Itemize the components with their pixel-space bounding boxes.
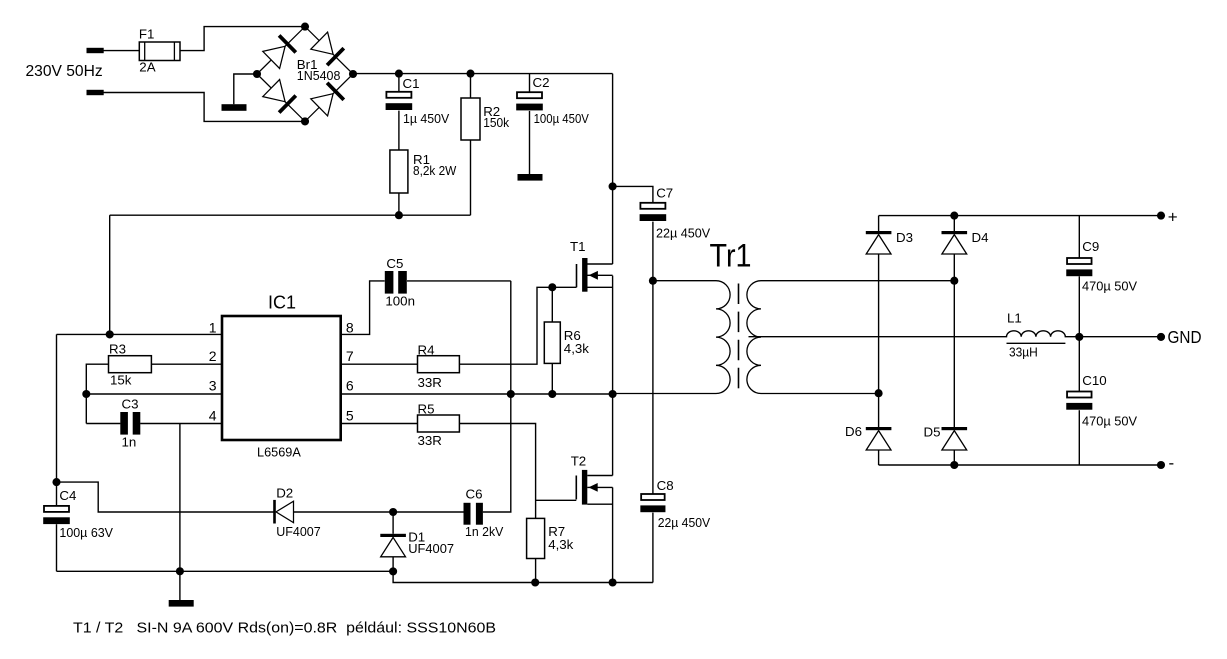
capacitor C4 — [44, 506, 69, 512]
node ground rail tap — [176, 567, 184, 575]
capacitor C3 — [120, 412, 128, 435]
svg-text:C1: C1 — [403, 76, 420, 91]
capacitor C6 — [464, 503, 471, 525]
ground at bridge — [222, 104, 247, 111]
wire bottom left rail — [57, 570, 394, 572]
node T2 source bottom — [609, 578, 617, 586]
wire C4 node jog to D2 row — [57, 482, 274, 512]
resistor R4 — [418, 356, 460, 373]
svg-text:+: + — [1168, 207, 1178, 226]
wire Vcc vertical — [109, 215, 111, 334]
node D1 top — [389, 508, 397, 516]
resistor R2 — [461, 98, 480, 140]
wire D5 branch lower — [953, 450, 955, 465]
terminal plus — [1157, 212, 1165, 220]
wire left rail down to C4 — [56, 334, 58, 482]
svg-text:UF4007: UF4007 — [408, 541, 454, 556]
svg-text:1n: 1n — [122, 435, 137, 450]
wire pin5 lead — [341, 423, 418, 425]
wire HV node to C7 — [613, 186, 653, 202]
svg-text:33R: 33R — [418, 433, 442, 448]
wire C8 bottom lead — [652, 513, 654, 583]
capacitor C9 — [1067, 258, 1092, 264]
svg-text:470µ 50V: 470µ 50V — [1082, 414, 1137, 429]
svg-text:-: - — [1169, 454, 1175, 473]
svg-text:1N5408: 1N5408 — [297, 68, 341, 83]
wire Vcc feed rail — [110, 214, 471, 216]
wire R3 left — [86, 364, 108, 423]
wire C10 top lead — [1078, 337, 1080, 391]
wire T2 gate lead — [536, 499, 577, 501]
svg-text:C9: C9 — [1082, 239, 1099, 254]
svg-text:C3: C3 — [122, 397, 139, 412]
svg-text:T1: T1 — [570, 239, 586, 254]
wire T1 source down to mid node — [612, 276, 614, 394]
svg-text:D6: D6 — [845, 424, 862, 439]
wire D3-D6 branch middle — [878, 254, 880, 427]
wire C7-C8 vertical — [652, 281, 654, 494]
svg-text:C6: C6 — [466, 487, 483, 502]
resistor R3 — [109, 356, 152, 373]
node T1 gate R6 tap — [548, 283, 556, 291]
svg-text:4,3k: 4,3k — [548, 537, 573, 552]
svg-text:F1: F1 — [139, 27, 155, 42]
wire C1 top lead — [398, 74, 400, 92]
svg-text:100µ 63V: 100µ 63V — [59, 525, 113, 540]
AC terminal bottom — [87, 90, 104, 95]
transistor T1 — [576, 264, 578, 287]
svg-text:1: 1 — [209, 320, 217, 336]
svg-text:IC1: IC1 — [268, 292, 296, 312]
wire pin6 row — [341, 393, 613, 395]
op-amp IC1 body — [222, 316, 341, 440]
capacitor C5 — [385, 271, 394, 294]
wire T2 source down — [612, 487, 614, 582]
wire C6 right lead — [483, 281, 511, 512]
bridge Br1 diamond wires — [257, 27, 353, 122]
wire pin7 lead — [341, 363, 418, 365]
wire terminal-top to fuse — [104, 50, 140, 52]
wire R6 bottom lead — [551, 363, 553, 394]
bridge diode top-right — [311, 32, 333, 54]
diode D5 — [942, 427, 968, 430]
node secondary bottom to D3 branch — [875, 389, 883, 397]
wire C9 bottom lead — [1078, 276, 1080, 337]
wire output top rail — [879, 215, 1161, 217]
resistor R6 — [544, 322, 560, 363]
capacitor C7 — [640, 203, 665, 209]
node pin1 Vcc tap — [106, 330, 114, 338]
wire bridge left to ground — [234, 74, 257, 104]
diode D1 — [380, 534, 406, 537]
node D4 top — [950, 212, 958, 220]
svg-text:4: 4 — [209, 407, 217, 423]
resistor R1 — [390, 150, 408, 193]
node C4 top — [52, 478, 60, 486]
svg-text:C8: C8 — [657, 478, 674, 493]
node C1 tap — [395, 70, 403, 78]
svg-text:2A: 2A — [139, 60, 155, 75]
resistor R5 — [418, 415, 460, 432]
svg-text:C4: C4 — [59, 488, 76, 503]
wire D4 branch upper — [953, 216, 955, 231]
wire top HV rail — [353, 73, 613, 75]
svg-text:7: 7 — [346, 348, 354, 364]
wire C2 top lead — [529, 74, 531, 93]
wire C4 top lead — [56, 482, 58, 506]
wire pin8 to C5 — [341, 281, 385, 335]
capacitor C8 — [641, 494, 665, 500]
wire C2 bottom lead — [529, 111, 531, 174]
svg-text:100n: 100n — [385, 293, 415, 308]
svg-text:D3: D3 — [896, 230, 913, 245]
wire C3 to pin4 — [140, 423, 222, 425]
wire output bottom rail — [879, 464, 1161, 466]
wire R4 to T1 gate — [459, 287, 576, 364]
svg-text:T1 / T2 SI-N 9A 600V Rds(on): T1 / T2 SI-N 9A 600V Rds(on)=0.8R példáu… — [73, 620, 496, 637]
svg-text:Tr1: Tr1 — [710, 238, 752, 274]
node half-bridge mid — [609, 390, 617, 398]
wire pin1 row — [57, 333, 223, 335]
node bridge top — [301, 23, 309, 31]
transformer Tr1 secondary winding — [747, 281, 954, 394]
wire D6 branch lower — [878, 450, 880, 465]
svg-text:L6569A: L6569A — [257, 444, 301, 459]
terminal GND — [1157, 333, 1165, 341]
wire R1 bottom lead — [398, 193, 400, 215]
fuse F1 — [139, 42, 180, 61]
transistor T2 — [575, 476, 577, 500]
node D5 bottom — [950, 461, 958, 469]
svg-text:22µ 450V: 22µ 450V — [658, 515, 711, 530]
wire C4 bottom lead — [56, 524, 58, 571]
svg-text:4,3k: 4,3k — [564, 341, 589, 356]
diode D4 — [942, 231, 968, 234]
svg-text:UF4007: UF4007 — [276, 524, 321, 539]
wire C9 top lead — [1078, 216, 1080, 258]
wire C5 right lead — [407, 280, 511, 282]
resistor R7 — [527, 518, 545, 558]
svg-text:D4: D4 — [972, 230, 989, 245]
svg-text:150k: 150k — [483, 115, 509, 130]
svg-text:2: 2 — [209, 348, 217, 364]
svg-text:100µ 450V: 100µ 450V — [534, 111, 589, 126]
wire D1 bottom lead — [392, 557, 394, 572]
capacitor C2 — [517, 92, 542, 98]
bridge diode bottom-right — [311, 94, 333, 116]
diode D3 — [866, 231, 892, 234]
svg-text:33µH: 33µH — [1009, 344, 1038, 359]
svg-text:R4: R4 — [418, 343, 435, 358]
svg-text:230V 50Hz: 230V 50Hz — [26, 63, 103, 80]
node bridge bottom — [301, 117, 309, 125]
node bridge right — [349, 70, 357, 78]
inductor L1 underline — [1007, 342, 1066, 344]
svg-text:3: 3 — [209, 378, 217, 394]
svg-text:R3: R3 — [109, 342, 126, 357]
wire fuse to bridge top node — [180, 27, 305, 51]
wire pin2 lead — [151, 363, 222, 365]
wire D4-D5 branch middle — [953, 254, 955, 427]
node GND junction — [1075, 333, 1083, 341]
wire C7 bottom to primary node — [652, 222, 654, 281]
svg-text:1n 2kV: 1n 2kV — [465, 524, 503, 539]
wire HV rail corner down to half-bridge — [612, 74, 614, 264]
wire pin4 ground vertical — [179, 424, 181, 601]
svg-text:C7: C7 — [656, 186, 673, 201]
node pin3 junction — [82, 390, 90, 398]
wire R2 top lead — [470, 74, 472, 98]
capacitor C1 — [386, 92, 411, 98]
bridge diode left-top — [263, 46, 285, 68]
wire C3 left lead — [86, 423, 120, 425]
svg-text:33R: 33R — [418, 375, 442, 390]
wire R2 bottom lead — [470, 140, 472, 215]
wire R7 bottom lead — [535, 559, 537, 583]
svg-text:8,2k 2W: 8,2k 2W — [413, 163, 457, 178]
ground below C2 — [518, 174, 543, 181]
svg-text:1µ 450V: 1µ 450V — [403, 111, 449, 126]
wire terminal-bottom to bridge bottom node — [104, 93, 306, 122]
svg-text:8: 8 — [346, 320, 354, 336]
wire pin3 row — [86, 393, 222, 395]
wire C1 to R1 — [398, 111, 400, 150]
transformer Tr1 primary winding — [613, 281, 731, 394]
diode D2 — [273, 500, 276, 524]
svg-text:T2: T2 — [571, 453, 587, 468]
wire D2 to D1 node — [294, 511, 464, 513]
svg-text:D5: D5 — [924, 424, 941, 439]
node C7 primary — [649, 277, 657, 285]
diode D6 — [866, 427, 892, 430]
wire mid node to T2 drain — [612, 394, 614, 476]
node secondary top to D4 branch — [950, 277, 958, 285]
svg-text:C2: C2 — [533, 75, 550, 90]
ground below IC — [169, 600, 194, 607]
svg-text:470µ 50V: 470µ 50V — [1082, 278, 1137, 293]
svg-text:C5: C5 — [386, 256, 403, 271]
node bridge left — [253, 70, 261, 78]
node HV to C7 — [609, 182, 617, 190]
node R7 bottom — [531, 578, 539, 586]
wire C10 bottom lead — [1078, 410, 1080, 465]
bridge diode left-bottom — [263, 80, 285, 102]
node R6 bottom — [548, 390, 556, 398]
node R1 bottom — [395, 211, 403, 219]
svg-text:22µ 450V: 22µ 450V — [656, 226, 710, 241]
wire bottom rail jog — [393, 571, 653, 582]
transformer core — [738, 284, 740, 390]
svg-text:6: 6 — [346, 378, 354, 394]
wire R6 top lead — [551, 287, 553, 322]
svg-text:GND: GND — [1168, 327, 1202, 347]
node R2 tap — [466, 70, 474, 78]
terminal minus — [1157, 461, 1165, 469]
wire R5 to T2 gate — [459, 424, 535, 519]
svg-text:C10: C10 — [1082, 373, 1106, 388]
wire D1 top lead — [392, 512, 394, 534]
node C5 vertical on pin6 — [507, 390, 515, 398]
node D1 bottom — [389, 567, 397, 575]
AC terminal top — [87, 48, 104, 53]
svg-text:D2: D2 — [276, 486, 293, 501]
svg-text:15k: 15k — [110, 372, 132, 387]
wire secondary center tap to GND terminal — [749, 331, 1162, 337]
svg-text:R5: R5 — [418, 402, 435, 417]
wire D3 branch upper — [878, 216, 880, 231]
svg-text:L1: L1 — [1007, 311, 1022, 326]
svg-text:5: 5 — [346, 407, 354, 423]
capacitor C10 — [1067, 392, 1092, 398]
